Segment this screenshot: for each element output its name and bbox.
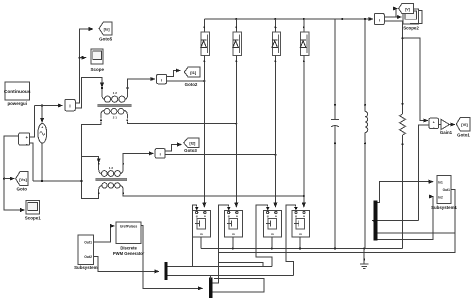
wire top rail: [204, 18, 373, 20]
wire T2 bottom right to column4: [123, 194, 304, 196]
wire bar2 output loop: [212, 278, 263, 292]
svg-text:In1: In1: [438, 180, 443, 184]
svg-text:i: i: [379, 18, 380, 23]
goto tag Goto5: [99, 22, 112, 42]
signal to goto2: [167, 71, 181, 77]
current measurement CM3: [155, 149, 165, 159]
svg-text:Gain1: Gain1: [440, 130, 453, 135]
svg-text:PWM Generator: PWM Generator: [113, 251, 145, 256]
svg-text:[Vs]: [Vs]: [19, 177, 27, 182]
svg-text:[I1]: [I1]: [190, 70, 197, 75]
wire vmeas minus down: [30, 143, 33, 181]
svg-text:Subsystem1: Subsystem1: [431, 205, 457, 210]
current measurement CM4: [374, 14, 384, 25]
wire bottom bus to transformer2: [33, 180, 82, 182]
svg-text:1 2: 1 2: [113, 91, 118, 95]
svg-text:m: m: [232, 232, 235, 236]
diode D1 column: [201, 19, 210, 207]
gain Gain1: [439, 120, 453, 136]
wire node down to vmeas plus: [30, 106, 35, 138]
svg-text:g: g: [196, 214, 198, 218]
node R top junction: [401, 37, 403, 39]
wire bar1 out1 line: [168, 265, 273, 267]
thyristor Q2: [225, 207, 243, 249]
PWM generator block: [113, 222, 145, 256]
wire bar2 top hook: [209, 276, 211, 280]
diode D3 column: [272, 19, 281, 207]
wire loop right of scope2: [410, 11, 422, 24]
wire elec out to R column: [384, 20, 402, 22]
svg-text:1 2: 1 2: [109, 166, 114, 170]
wire vmeas out to left bus: [4, 136, 25, 210]
thyristor Q1: [193, 207, 211, 249]
thyristor Q3: [264, 207, 282, 249]
wire bar3 out1 to In1: [378, 182, 434, 203]
svg-text:[Vl]: [Vl]: [461, 122, 468, 127]
svg-text:Subsystem: Subsystem: [74, 265, 98, 270]
node rail junctions: [235, 18, 237, 20]
wire bar3 out3 right: [378, 232, 455, 234]
svg-text:i: i: [161, 77, 162, 82]
wire T1 primary bottom return: [82, 121, 102, 198]
scope Scope2: [403, 9, 419, 31]
svg-text:m: m: [200, 232, 203, 236]
wire T2 primary top feed: [82, 156, 99, 163]
demux bar1: [164, 262, 167, 280]
wire out1 to PWM generator: [94, 226, 115, 242]
svg-text:Scope: Scope: [90, 67, 104, 72]
resistor R1: [400, 21, 406, 248]
wire T1 bottom right to column2: [127, 121, 236, 123]
wire T2 top right to current measurement I3: [123, 153, 154, 164]
wire I2 elec out to column1: [167, 80, 205, 82]
wire PWM out to demux bar2: [141, 226, 202, 289]
svg-text:[V]: [V]: [405, 7, 410, 11]
svg-text:+: +: [41, 126, 43, 130]
node left bus junction: [3, 178, 5, 180]
capacitor C1: [331, 19, 339, 249]
svg-text:Scope2: Scope2: [403, 26, 419, 31]
svg-text:Out1: Out1: [84, 241, 92, 245]
svg-text:g: g: [228, 214, 230, 218]
demux bar2: [209, 278, 212, 298]
svg-text:Goto: Goto: [17, 187, 28, 192]
wire elec out to transformer1 primary top: [75, 77, 102, 108]
AC voltage source: [38, 124, 47, 144]
transformer T2: [96, 163, 127, 194]
svg-text:In2: In2: [438, 195, 443, 199]
svg-text:Goto2: Goto2: [185, 82, 198, 87]
bottom rail: [201, 248, 403, 250]
svg-text:Goto3: Goto3: [184, 148, 197, 153]
wire gate4 feed: [286, 205, 296, 276]
svg-text:i: i: [69, 104, 70, 109]
wire subsystem1 out return: [219, 190, 455, 253]
secondary wiring T1 top to current measurement I2: [128, 79, 156, 89]
wire signal to scope/goto5: [75, 29, 93, 103]
powergui: [4, 82, 31, 106]
subsystem Subsystem: [74, 235, 98, 270]
diode D4 column: [300, 19, 309, 207]
wire vmeas minus horizontal to demux input: [372, 220, 418, 222]
current measurement CM1: [65, 100, 76, 111]
scope Scope1: [25, 201, 42, 221]
wire bar1 out2 line: [168, 275, 294, 277]
wire bar2 branch to bar1 line: [219, 262, 264, 266]
wire AC top to node: [41, 106, 43, 123]
svg-text:Discrete: Discrete: [120, 246, 137, 251]
diode D2 column: [233, 19, 242, 207]
goto tag [I2] Goto3: [184, 138, 199, 153]
wire AC bottom to bus: [41, 143, 43, 181]
svg-text:Out1: Out1: [443, 188, 450, 192]
signal to goto3: [165, 145, 182, 152]
wire gate1 feed: [192, 205, 196, 267]
goto tag [I1] Goto2: [184, 67, 200, 87]
wire I3 elec out to column3: [165, 154, 275, 156]
thyristor Q4: [292, 207, 310, 249]
wire gate2 feed: [212, 205, 228, 283]
wire node to current measurement: [35, 105, 63, 107]
current measurement CM2: [157, 74, 167, 84]
goto tag [V]: [399, 4, 414, 14]
wire gain to goto1: [450, 124, 456, 126]
svg-text:Goto5: Goto5: [99, 37, 112, 42]
svg-text:2 1: 2 1: [113, 115, 118, 119]
svg-text:Out2: Out2: [84, 255, 92, 259]
goto tag [Vl] Goto1: [456, 118, 470, 138]
svg-text:m: m: [299, 232, 302, 236]
inductor L1: [364, 19, 368, 249]
wire bar3 out2 to In2: [378, 197, 434, 240]
wire to goto Vs: [4, 178, 14, 180]
wire to load voltage measurement: [403, 38, 428, 120]
svg-text:i: i: [160, 152, 161, 157]
svg-text:[Is]: [Is]: [104, 27, 111, 32]
svg-text:Goto1: Goto1: [457, 133, 470, 138]
ground: [360, 249, 369, 269]
svg-text:Continuous: Continuous: [4, 89, 31, 95]
subsystem Subsystem1: [431, 176, 457, 211]
wire signal to scope2: [384, 16, 401, 18]
svg-text:[I2]: [I2]: [189, 141, 196, 146]
svg-text:powergui: powergui: [7, 101, 27, 106]
svg-text:+: +: [26, 135, 29, 140]
voltage measurement VM2: [429, 118, 438, 129]
demux bar3: [373, 201, 377, 241]
wire gate3 feed: [256, 205, 272, 267]
wire minus input down to demux: [418, 125, 429, 221]
voltage measurement VM1: [19, 133, 30, 147]
svg-text:g: g: [267, 214, 269, 218]
svg-text:g: g: [295, 214, 297, 218]
goto tag [Vs]: [16, 172, 28, 192]
transformer T1: [98, 87, 132, 121]
svg-text:Scope1: Scope1: [25, 216, 42, 221]
svg-text:UrefPulses: UrefPulses: [120, 225, 137, 229]
wire out2 to demux bar1: [94, 256, 159, 271]
svg-text:m: m: [271, 232, 274, 236]
scope Scope: [90, 49, 104, 72]
wire branch to goto tag: [396, 9, 397, 18]
